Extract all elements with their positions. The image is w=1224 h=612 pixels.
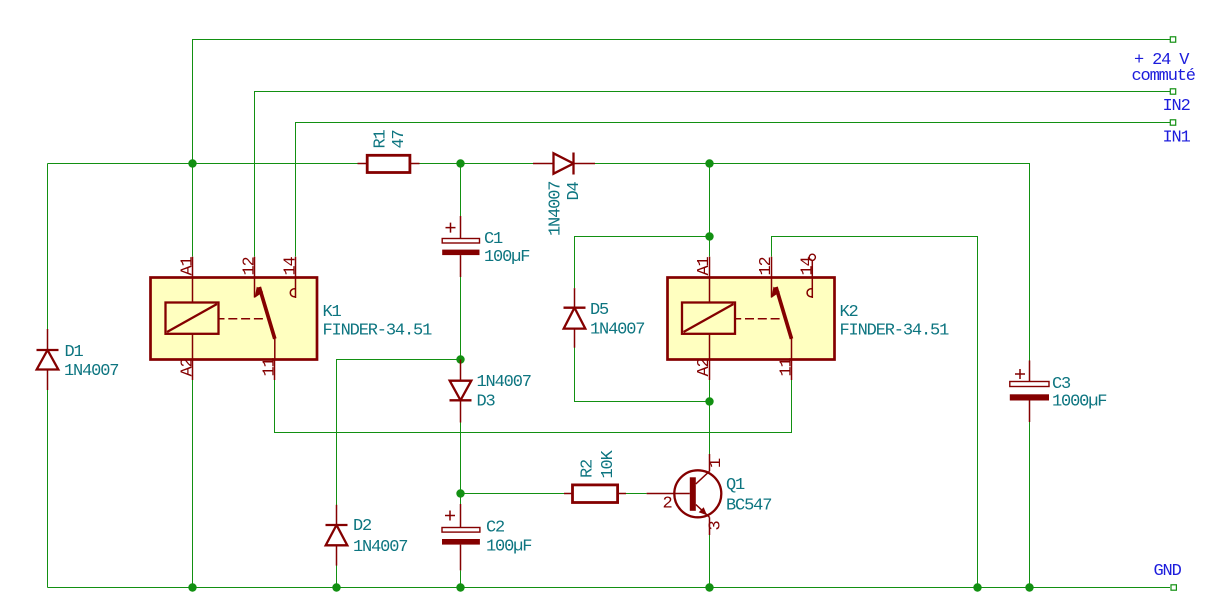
svg-text:1N4007: 1N4007 xyxy=(64,362,118,381)
diode D5 xyxy=(564,288,645,348)
relay K2 xyxy=(668,254,950,380)
svg-text:FINDER-34.51: FINDER-34.51 xyxy=(840,322,950,341)
K2 pin 14 unconnected xyxy=(811,260,813,277)
wire D2 bottom to rail xyxy=(336,566,338,588)
svg-text:D4: D4 xyxy=(565,181,584,200)
wire main rail R1 to D4 xyxy=(420,163,534,165)
svg-text:1000µF: 1000µF xyxy=(1052,393,1106,412)
svg-text:D3: D3 xyxy=(477,393,496,412)
wire D5 bottom link xyxy=(575,348,710,402)
wire K2 A2 to collector node xyxy=(709,380,711,454)
wire left drop to D1 xyxy=(47,164,49,330)
capacitor C1 xyxy=(442,216,529,277)
K2 pin A1 xyxy=(709,257,711,278)
K1 contact 12 lead xyxy=(254,278,256,298)
svg-text:D1: D1 xyxy=(65,343,84,362)
svg-text:A2: A2 xyxy=(695,358,714,376)
svg-text:IN1: IN1 xyxy=(1163,129,1191,148)
node IN2 endpoint xyxy=(1170,89,1175,94)
wire node360 horizontal to D2 branch xyxy=(337,360,461,505)
K2 pin 12 xyxy=(771,257,773,278)
wire D1 to bottom rail xyxy=(47,390,49,588)
wire C2 top stub xyxy=(460,494,462,505)
wire main rail left of R1 xyxy=(48,163,358,165)
svg-text:C2: C2 xyxy=(486,519,504,538)
svg-text:D2: D2 xyxy=(353,517,371,536)
K2 contact 12 lead xyxy=(771,278,773,298)
svg-text:K1: K1 xyxy=(323,303,342,322)
K1 pin A1 xyxy=(192,257,194,278)
wire D5 top link xyxy=(575,237,710,289)
wire Q1 emitter to rail xyxy=(709,535,711,588)
K2 blade xyxy=(776,287,792,339)
K2 contact 14 lead xyxy=(811,278,813,299)
svg-text:10K: 10K xyxy=(599,449,618,478)
svg-text:R1: R1 xyxy=(372,129,391,148)
svg-text:1N4007: 1N4007 xyxy=(590,321,644,340)
capacitor C3 xyxy=(1010,361,1107,423)
wire +24V rail xyxy=(193,40,1171,164)
junction bottom rail at D2 xyxy=(332,583,340,591)
K2 coil xyxy=(682,303,735,334)
junction main rail at C1 xyxy=(456,159,464,167)
svg-text:IN2: IN2 xyxy=(1163,97,1190,116)
wire C1 top xyxy=(460,164,462,217)
svg-text:A1: A1 xyxy=(695,256,714,275)
wire main rail D4 to right drop to C3 xyxy=(595,164,1030,361)
wire IN1 rail xyxy=(296,123,1171,257)
svg-text:11: 11 xyxy=(777,357,796,376)
capacitor C2 xyxy=(442,504,531,570)
K1 pin 11 xyxy=(274,360,276,381)
wire C3 bottom to rail xyxy=(1029,422,1031,588)
svg-text:1: 1 xyxy=(707,458,726,468)
svg-text:12: 12 xyxy=(241,257,260,275)
junction K2 A1 / D5 top xyxy=(705,232,713,240)
wire K2 pin12 to right drop xyxy=(772,237,978,588)
wire C1 bottom to node xyxy=(460,277,462,360)
K1 pin 12 xyxy=(254,257,256,278)
svg-text:A2: A2 xyxy=(179,358,198,376)
wire K1 A2 to bottom rail xyxy=(192,380,194,588)
svg-text:1N4007: 1N4007 xyxy=(353,538,407,557)
diode D4 xyxy=(533,153,595,237)
resistor R2 xyxy=(564,449,626,502)
transistor Q1 xyxy=(647,454,772,535)
junction main rail at K2 A1 xyxy=(705,159,713,167)
node IN1 endpoint xyxy=(1170,120,1175,125)
relay K1 xyxy=(151,256,433,380)
svg-text:C3: C3 xyxy=(1052,375,1071,394)
wire IN2 rail xyxy=(255,92,1171,257)
junction K2 A2 / D5 bottom xyxy=(705,397,713,405)
wire bottom GND rail xyxy=(48,587,1171,589)
K2 coil-blade link xyxy=(735,318,782,320)
junction bottom rail at K1 A2 xyxy=(188,583,196,591)
svg-text:47: 47 xyxy=(390,130,409,148)
svg-text:R2: R2 xyxy=(579,460,598,478)
junction bottom rail at K2 contact drop xyxy=(973,583,981,591)
svg-text:2: 2 xyxy=(663,495,672,514)
K1 coil-blade link xyxy=(219,318,266,320)
K2 pin 11 xyxy=(791,360,793,381)
K1 contact 14 lead xyxy=(295,278,297,299)
K2 pin A2 xyxy=(709,360,711,381)
K1 blade xyxy=(259,287,275,339)
svg-text:C1: C1 xyxy=(484,230,503,249)
wire D3 bottom to node xyxy=(460,423,462,494)
wire K1 pin11 to K2 pin11 xyxy=(275,380,792,433)
wire base node to R2 xyxy=(461,493,565,495)
svg-text:11: 11 xyxy=(261,357,280,376)
svg-text:14: 14 xyxy=(282,256,301,275)
wire K1 A1 drop xyxy=(192,164,194,257)
junction base node at C2 xyxy=(456,489,464,497)
svg-text:A1: A1 xyxy=(179,256,198,275)
node GND endpoint xyxy=(1171,585,1176,590)
junction bottom rail at C3 xyxy=(1025,583,1033,591)
wire C2 bottom to rail xyxy=(460,570,462,587)
junction C1 bottom node xyxy=(456,355,464,363)
junction bottom rail at C2 xyxy=(456,583,464,591)
K1 pin 14 xyxy=(295,257,297,278)
wire R2 to Q1 base xyxy=(626,493,647,495)
svg-text:12: 12 xyxy=(757,257,776,275)
svg-text:K2: K2 xyxy=(840,303,858,322)
junction bottom rail at Q1 emitter xyxy=(705,583,713,591)
svg-text:1N4007: 1N4007 xyxy=(477,373,531,392)
diode D1 xyxy=(37,329,119,390)
svg-text:100µF: 100µF xyxy=(486,538,531,557)
junction main rail at K1 A1 xyxy=(188,159,196,167)
svg-text:GND: GND xyxy=(1154,562,1182,581)
diode D2 xyxy=(326,505,408,566)
node +24V commuté endpoint xyxy=(1170,37,1175,42)
svg-text:commuté: commuté xyxy=(1132,67,1196,86)
svg-text:BC547: BC547 xyxy=(726,497,771,516)
svg-text:3: 3 xyxy=(707,521,726,531)
svg-text:D5: D5 xyxy=(590,301,609,320)
svg-text:100µF: 100µF xyxy=(484,248,529,267)
svg-text:14: 14 xyxy=(798,256,817,275)
svg-text:Q1: Q1 xyxy=(726,476,745,495)
diode D3 xyxy=(450,360,531,423)
svg-text:1N4007: 1N4007 xyxy=(547,182,566,236)
wire K2 A1 drop xyxy=(709,164,711,257)
resistor R1 xyxy=(358,129,420,172)
K1 coil xyxy=(166,303,219,334)
K1 pin A2 xyxy=(192,360,194,381)
svg-text:FINDER-34.51: FINDER-34.51 xyxy=(323,322,433,341)
